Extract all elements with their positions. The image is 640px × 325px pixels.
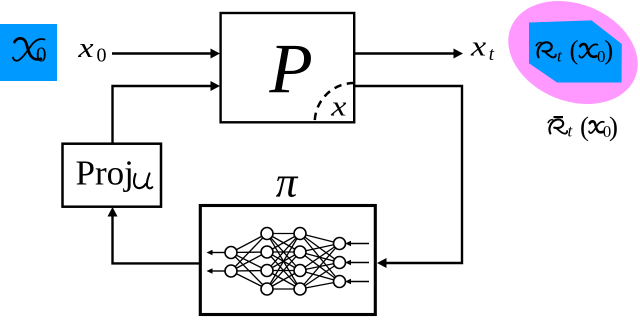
svg-text:0: 0 <box>36 43 47 67</box>
wire x0 to plant P <box>112 49 220 59</box>
svg-text:P: P <box>268 31 312 109</box>
svg-text:): ) <box>604 35 613 65</box>
neural network edges layer A-B <box>231 234 267 290</box>
network output arrows (left) <box>207 250 225 274</box>
projection box ProjU <box>63 144 162 207</box>
network input arrows (right) <box>345 241 369 285</box>
svg-text:π: π <box>276 160 299 207</box>
svg-text:(: ( <box>580 111 589 141</box>
label X0 (script X with subscript 0) <box>13 38 47 66</box>
node x0 label <box>77 32 106 67</box>
svg-text:Proj: Proj <box>76 153 134 192</box>
neural network edges layer B-C <box>267 234 300 290</box>
over-approximation pink ellipse <box>493 0 640 123</box>
dashed state arc inside P <box>315 83 355 123</box>
label Rt(X0) inside polygon <box>536 35 613 66</box>
svg-text:0: 0 <box>97 45 107 67</box>
initial set X0 blue square <box>0 24 57 81</box>
reachable set blue polygon <box>529 20 622 82</box>
wire policy to Proj <box>108 207 201 263</box>
label Proj_U <box>76 153 153 192</box>
neural network nodes layer D <box>334 238 346 288</box>
node xt label <box>470 31 495 65</box>
wire Proj to plant P <box>113 81 221 143</box>
neural network nodes layer B <box>261 228 273 296</box>
label Rbar_t(X0) below <box>548 111 618 141</box>
svg-text:): ) <box>609 111 618 141</box>
plant box P <box>221 13 355 122</box>
svg-text:t: t <box>489 44 495 65</box>
neural network nodes layer C <box>294 228 306 296</box>
svg-text:x: x <box>77 32 93 63</box>
wire P output down to policy box <box>354 86 462 268</box>
neural network edges layer C-D <box>300 234 340 290</box>
svg-text:x: x <box>330 90 346 121</box>
wire P to xt <box>354 49 463 59</box>
svg-text:(: ( <box>570 35 579 65</box>
svg-text:x: x <box>470 31 486 62</box>
neural network nodes layer A <box>225 247 237 278</box>
policy box <box>200 206 375 315</box>
